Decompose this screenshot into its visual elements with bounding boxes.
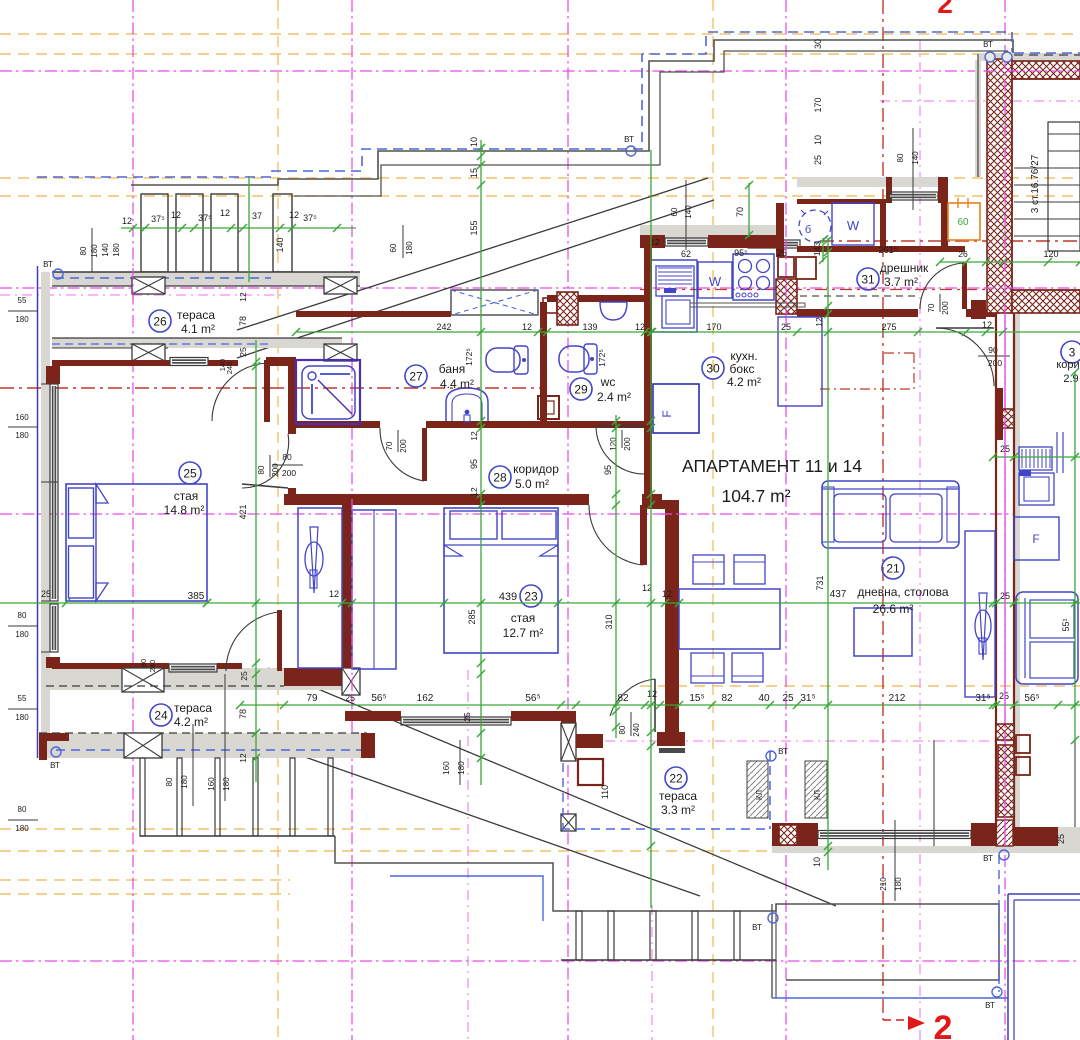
wall room25 south a (52, 663, 169, 669)
magenta overlay y514 (660, 513, 685, 515)
orange grid horizontal 0 (0, 33, 1080, 35)
svg-text:120: 120 (609, 437, 618, 451)
balcony blue bottom right (772, 997, 1008, 999)
dim 55-180 left margin 4 (8, 694, 38, 722)
dreshnik dashed wardrobe line (800, 295, 918, 297)
green dim vertical x749 (748, 183, 750, 237)
svg-text:70: 70 (927, 303, 936, 312)
svg-text:24: 24 (154, 708, 168, 722)
neighbor corridor label (1056, 341, 1080, 385)
sink wc (600, 302, 627, 320)
room27 label (405, 362, 474, 391)
wall kitchen north a (640, 235, 665, 248)
stair core rect (1048, 122, 1080, 251)
green dim vertical x616 (615, 415, 617, 738)
orange grid horizontal 2 (0, 177, 1080, 179)
grey band living south wall (772, 846, 1080, 853)
black dashed top right (1014, 54, 1080, 56)
svg-text:баня: баня (439, 362, 465, 376)
svg-text:12: 12 (522, 322, 532, 332)
kitchen shaft red box 1 (778, 257, 794, 277)
svg-text:12: 12 (814, 317, 824, 327)
dining chair 4 (732, 653, 763, 682)
svg-text:60: 60 (957, 217, 969, 228)
wall terrace24 right block (361, 733, 375, 758)
green dim vertical x256 (255, 340, 257, 782)
svg-text:2.9: 2.9 (1063, 373, 1078, 385)
svg-text:180: 180 (112, 243, 121, 257)
svg-text:55¹: 55¹ (1061, 618, 1071, 631)
grey band niche north wall (797, 177, 943, 187)
svg-text:дрешник: дрешник (880, 261, 929, 275)
svg-text:80: 80 (79, 246, 88, 255)
wall living west (665, 507, 679, 732)
wall room23 south a (345, 711, 401, 721)
room31 label (857, 261, 929, 290)
BT circle left bottom (50, 747, 61, 770)
svg-text:F: F (660, 410, 674, 417)
blue dashed balcony right (998, 855, 1000, 992)
svg-text:30: 30 (706, 361, 720, 375)
svg-text:170: 170 (706, 322, 721, 332)
magenta grid vertical 2 (567, 0, 569, 1040)
svg-text:3.7 m²: 3.7 m² (884, 275, 918, 289)
svg-text:31⁵: 31⁵ (975, 693, 990, 704)
blue dashed top right (1014, 52, 1080, 54)
svg-text:37⁵: 37⁵ (198, 213, 212, 223)
dim 60-180 x403 (389, 225, 414, 258)
dim 80-180 left margin 3 (8, 611, 38, 639)
wall wc east (644, 290, 652, 428)
svg-text:80: 80 (18, 611, 27, 620)
door room25-terrace24 arc (226, 612, 279, 671)
diagonal line upper 1 (237, 178, 708, 330)
svg-text:140: 140 (275, 237, 285, 252)
tv unit room25 (298, 508, 342, 668)
threshold room23-terrace22 (659, 748, 685, 753)
wall living east (996, 313, 1014, 846)
svg-text:б: б (805, 224, 811, 236)
svg-text:200: 200 (399, 439, 408, 453)
svg-text:ВТ: ВТ (983, 854, 993, 863)
svg-text:160: 160 (15, 413, 29, 422)
wall kitchen west (644, 240, 652, 296)
svg-text:wc: wc (600, 375, 616, 389)
neighbor radiator (1019, 447, 1052, 470)
wall terrace26 bottom edge lines (52, 338, 342, 348)
svg-text:56⁵: 56⁵ (371, 693, 386, 704)
dim 80-200 corridor-room25 door (257, 455, 280, 477)
wall ne window piece b (938, 177, 946, 203)
wall room25 south block (284, 668, 360, 686)
orange grid vertical A (277, 0, 279, 1040)
svg-text:26: 26 (958, 249, 968, 259)
svg-text:80: 80 (282, 452, 292, 462)
bed room25 pillow 2 (69, 546, 94, 598)
diagonal line upper 2 (237, 200, 714, 358)
svg-text:140: 140 (911, 151, 920, 165)
svg-text:15: 15 (469, 168, 479, 178)
wall corridor east (644, 428, 652, 494)
column block X1 top band (132, 277, 165, 294)
dim 210-180 bottom (879, 820, 903, 901)
kitchen stove (733, 254, 774, 300)
BT circles stairwell top (983, 40, 1012, 62)
svg-text:ВТ: ВТ (778, 747, 788, 756)
kitchen counter outline (652, 260, 697, 332)
svg-text:170: 170 (813, 97, 823, 112)
svg-text:тераса: тераса (174, 701, 212, 715)
wall bath north (296, 311, 451, 317)
svg-text:80: 80 (18, 805, 27, 814)
neighbor building corner lines (1008, 894, 1080, 1040)
kl hatch 1 (747, 761, 768, 818)
svg-text:25: 25 (1056, 834, 1066, 844)
green dimension ticks (62, 144, 1080, 856)
toilet wc (559, 344, 597, 374)
svg-text:2.4 m²: 2.4 m² (597, 390, 631, 404)
pink dashed horizontal y741 (561, 740, 1016, 742)
door room23-terrace22 arc (610, 679, 655, 716)
green dim horizontal y603 (0, 602, 1080, 604)
upper balcony railing posts (141, 194, 292, 272)
dim 160-180 mid (207, 674, 231, 801)
room25 label (164, 462, 205, 517)
orange grid horizontal 8 (0, 893, 290, 895)
magenta overlay x133 (132, 268, 134, 300)
railing bottom rail center (561, 959, 776, 961)
dim 160-180 terrace24 (165, 724, 193, 806)
dim 70-200 entry door (927, 294, 950, 315)
svg-text:180: 180 (15, 431, 29, 440)
door room23-terrace22 panel (654, 679, 656, 732)
svg-text:бокс: бокс (730, 362, 755, 376)
orange grid horizontal 1 (0, 53, 1080, 55)
diagonal line lower 2 (268, 744, 700, 896)
wall terrace22 west (561, 711, 576, 761)
svg-text:180: 180 (15, 713, 29, 722)
green dim horizontal y228 (121, 227, 356, 229)
magenta grid horizontal y514 (0, 513, 1016, 515)
green dim horizontal y457 (993, 456, 1080, 458)
svg-text:242: 242 (436, 322, 451, 332)
neighbor terrace east lines (934, 740, 1075, 846)
svg-text:160: 160 (442, 761, 451, 775)
svg-text:139: 139 (582, 322, 597, 332)
blue dashed terrace22 south (561, 828, 770, 830)
wall room25 south b (217, 663, 242, 669)
wall room25 north a (52, 360, 170, 366)
wall dreshnik south a (797, 309, 918, 317)
railing posts bottom center (576, 911, 740, 960)
svg-text:200: 200 (941, 301, 950, 315)
door corridor-room23 arc (589, 505, 643, 565)
dim 60-140 kitchen window (670, 180, 693, 250)
room29 label (570, 375, 631, 404)
svg-text:14.8 m²: 14.8 m² (164, 503, 205, 517)
svg-text:W: W (847, 218, 860, 233)
dining chair 1 (693, 555, 724, 584)
door corridor-room25 arc (242, 434, 289, 488)
svg-text:80: 80 (896, 153, 905, 162)
svg-text:ВТ: ВТ (985, 1001, 995, 1010)
kitchen shaft crosshatch (776, 279, 797, 314)
svg-text:12: 12 (329, 589, 339, 599)
svg-text:3 ст.16.76/27: 3 ст.16.76/27 (1030, 154, 1041, 213)
column hatch living east top (996, 409, 1014, 428)
wall stairwell south of entry (995, 388, 1003, 440)
svg-text:4.1 m²: 4.1 m² (181, 322, 215, 336)
svg-text:140: 140 (684, 205, 693, 219)
orange grid horizontal 5 (0, 828, 460, 830)
room26 label (149, 308, 215, 336)
wall corridor south a (284, 494, 589, 505)
svg-text:3.3 m²: 3.3 m² (661, 803, 695, 817)
room21 label (857, 557, 948, 616)
svg-text:310: 310 (604, 614, 614, 629)
svg-text:12: 12 (122, 216, 132, 226)
door room25-terrace24 panel (277, 610, 282, 671)
wall kitchen-dreshnik (776, 203, 784, 257)
dining chair 3 (691, 653, 724, 683)
orange grid horizontal 4 (640, 685, 1080, 687)
door corridor-living arc (596, 426, 644, 474)
pink dashed vertical x468 (467, 670, 469, 1040)
svg-text:162: 162 (417, 693, 434, 704)
svg-text:25: 25 (813, 155, 823, 165)
green dim vertical x651 (650, 150, 652, 908)
wall living west top chunk (647, 500, 679, 509)
svg-text:25: 25 (239, 671, 249, 681)
dim 70-200 bath door (385, 430, 408, 453)
svg-text:180: 180 (894, 877, 903, 891)
magenta overlay x1005 (1004, 57, 1006, 846)
svg-text:275: 275 (881, 322, 896, 332)
green dim horizontal y262 (940, 261, 1080, 263)
wall corridor south b (642, 494, 662, 505)
wall dreshnik south b (966, 309, 996, 317)
grey band terrace26 bottom wall (52, 338, 342, 348)
svg-text:80: 80 (618, 725, 627, 734)
upper-floor outline inner grey (294, 51, 1008, 196)
blue dashed terrace24 bottom (56, 749, 365, 751)
bed room23 pillow 1 (450, 511, 497, 539)
shaft box bath north (451, 290, 538, 315)
magenta overlay y71 (984, 70, 1080, 72)
svg-text:12: 12 (650, 237, 660, 247)
balcony right vertical double (772, 904, 776, 998)
svg-text:200: 200 (623, 437, 632, 451)
svg-text:78: 78 (238, 709, 248, 719)
svg-text:80: 80 (257, 465, 266, 474)
svg-text:56⁵: 56⁵ (525, 693, 540, 704)
magenta overlay x352 (351, 499, 353, 700)
sofa living details (822, 487, 959, 542)
svg-text:78: 78 (238, 316, 248, 326)
door entry arc (920, 263, 964, 309)
svg-text:31: 31 (861, 272, 875, 286)
green dim vertical x481 (480, 140, 482, 785)
window room25 west lower (50, 604, 58, 652)
svg-text:ВТ: ВТ (50, 761, 60, 770)
window terrace26-room25 (170, 358, 208, 366)
svg-text:12: 12 (171, 210, 181, 220)
svg-text:стая: стая (174, 489, 199, 503)
pink dashed vertical x920 (919, 40, 921, 1040)
svg-text:21: 21 (886, 561, 900, 575)
railing bottom rail terrace24 (140, 835, 335, 837)
BT circle left top (43, 260, 63, 279)
wall living south red b (971, 823, 996, 846)
column hatch living east bottom (996, 724, 1014, 740)
svg-text:437: 437 (830, 589, 847, 600)
svg-text:25: 25 (41, 589, 51, 599)
svg-text:КЛ: КЛ (813, 790, 822, 800)
green dim vertical x1075 (1074, 372, 1076, 742)
svg-text:200: 200 (282, 468, 296, 478)
svg-text:10: 10 (812, 857, 822, 867)
svg-text:80: 80 (165, 777, 174, 786)
wall room25 north b (208, 360, 238, 366)
svg-text:29: 29 (574, 382, 588, 396)
sofa living outline (822, 481, 959, 548)
blue dashed terrace22 east (769, 751, 771, 829)
BT circle balcony center (752, 913, 778, 932)
room28 label (489, 462, 559, 491)
svg-text:421: 421 (238, 504, 248, 519)
red 2 bottom (883, 1009, 952, 1040)
svg-text:3: 3 (1069, 345, 1076, 359)
crosshatch living south a (779, 825, 797, 845)
column block X5 room25 south (122, 668, 164, 692)
svg-text:56⁵: 56⁵ (1024, 693, 1039, 704)
kitchen tall cabinet (778, 317, 822, 406)
grey band living east wall (1014, 313, 1020, 846)
pink dashed vertical x652 (651, 905, 653, 1040)
magenta grid vertical 3 (785, 0, 787, 1040)
wall bath-wc divider (540, 302, 547, 421)
dim 80-140 niche window (896, 128, 920, 210)
svg-text:12: 12 (238, 292, 248, 302)
svg-text:31⁵: 31⁵ (800, 693, 815, 704)
red dashdot horizontal y388 left (0, 387, 290, 389)
svg-text:25: 25 (782, 693, 794, 704)
svg-text:тераса: тераса (659, 789, 697, 803)
magenta grid horizontal y961 (0, 960, 1080, 962)
svg-text:F: F (1032, 532, 1039, 546)
door entry panel (962, 263, 967, 309)
orange grid horizontal 3 (0, 195, 1080, 197)
svg-text:180: 180 (15, 630, 29, 639)
window dreshnik north (748, 240, 800, 248)
wall corridor north c (545, 421, 651, 428)
svg-text:22: 22 (669, 771, 683, 785)
red dashdot horizontal y289 right (640, 289, 990, 291)
wall left exterior red bottom (46, 657, 60, 668)
svg-text:55: 55 (18, 296, 27, 305)
wall room23 south b (511, 711, 576, 721)
wall kitchen north b (708, 235, 776, 248)
left wall window sills (41, 384, 58, 652)
window niche ne (888, 192, 938, 200)
grey band room25 south wall (46, 668, 360, 690)
wall living south red a (772, 823, 818, 846)
green dim vertical x823 (822, 238, 824, 262)
svg-text:37⁵: 37⁵ (303, 213, 317, 223)
grey band entry west wall (975, 60, 981, 177)
bed room25 pillow 1 (69, 488, 94, 538)
dreshnik window bar (690, 303, 805, 307)
window kitchen north (665, 238, 708, 246)
wall niche top (797, 199, 886, 204)
svg-text:172⁵: 172⁵ (597, 349, 607, 367)
wall dreshnik north (797, 246, 965, 252)
wall terrace26 top dark edges (52, 272, 360, 286)
svg-text:5.0 m²: 5.0 m² (515, 477, 549, 491)
svg-text:80: 80 (139, 659, 148, 667)
column X terrace22 small (561, 814, 576, 831)
svg-text:кухн.: кухн. (730, 349, 757, 363)
door room25-terrace26 panel (264, 360, 270, 422)
dim 80-180 rot pair left (79, 228, 99, 282)
dimension labels (41, 237, 1071, 867)
svg-text:120: 120 (1043, 249, 1058, 259)
tv room25 (305, 527, 323, 593)
svg-text:4.2 m²: 4.2 m² (727, 375, 761, 389)
svg-text:37⁵: 37⁵ (151, 214, 165, 224)
svg-text:27: 27 (409, 369, 423, 383)
wall left exterior red top (46, 366, 60, 384)
svg-text:30: 30 (813, 39, 823, 49)
boiler b dashed circle (799, 210, 831, 242)
blue dashed terrace22 west (562, 763, 564, 829)
svg-text:стая: стая (511, 611, 536, 625)
svg-text:180: 180 (15, 824, 29, 833)
wall ne window piece a (886, 177, 892, 203)
svg-text:ВТ: ВТ (752, 923, 762, 932)
diagonal line lower 1 (268, 668, 836, 906)
stairwell hatch bottom band (1012, 290, 1080, 313)
magenta overlay y288 (984, 287, 1016, 289)
wall terrace22 west L (576, 734, 603, 748)
door neighbor panel (936, 327, 994, 329)
tv unit living (965, 531, 995, 697)
svg-text:70: 70 (735, 207, 745, 217)
BT circle terrace22 (766, 747, 788, 761)
svg-text:210: 210 (879, 877, 888, 891)
svg-text:25: 25 (345, 693, 355, 703)
svg-text:12: 12 (238, 753, 248, 763)
magenta overlay x786 (785, 240, 787, 320)
blue dashed line terrace26 bottom band (52, 343, 270, 345)
svg-text:261⁵: 261⁵ (879, 245, 898, 255)
door corridor-living panel (596, 425, 644, 427)
dim 80-180 left margin 5 (8, 805, 38, 833)
red duct square right 1 (1016, 735, 1030, 753)
column block X4 (324, 344, 357, 361)
column block X6 room23 sw (342, 668, 360, 695)
dark edge entry west wall (977, 54, 979, 177)
window room25 west upper (50, 384, 58, 601)
window living south (818, 831, 971, 839)
red dashdot horizontal y241 (820, 240, 1080, 242)
orange grid vertical B (712, 0, 714, 1040)
stair treads (1014, 134, 1080, 236)
svg-text:2: 2 (937, 0, 953, 19)
svg-text:55: 55 (18, 694, 27, 703)
svg-text:12: 12 (982, 320, 992, 330)
svg-text:180: 180 (222, 777, 231, 791)
